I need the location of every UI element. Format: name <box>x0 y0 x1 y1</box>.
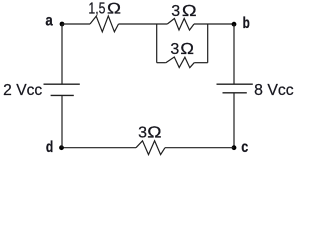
wire battery B2 to node c <box>233 93 235 148</box>
svg-text:Ω: Ω <box>180 41 194 58</box>
resistor R4 <box>136 141 165 155</box>
svg-text:3: 3 <box>170 41 179 58</box>
resistor R1 unit label ohm <box>107 1 122 18</box>
wire parallel-block right vertical <box>207 24 209 63</box>
wire bottom branch lead-in <box>157 62 166 64</box>
wire bottom branch lead-out <box>194 62 208 64</box>
wire c to R4 <box>165 147 234 149</box>
wire b to battery B2 <box>233 24 235 84</box>
battery B2 negative plate <box>223 92 247 94</box>
svg-text:3: 3 <box>138 125 147 142</box>
node d <box>59 145 64 150</box>
node a <box>60 22 65 27</box>
battery B1 negative plate <box>51 94 74 96</box>
wire d to battery B1 <box>61 95 63 147</box>
wire R2 to node b <box>194 23 234 25</box>
resistor R1 <box>90 16 119 32</box>
wire parallel-block left vertical <box>156 24 158 63</box>
svg-text:3: 3 <box>171 3 180 20</box>
battery B2 value label 8 Vcc <box>254 82 294 99</box>
node a label <box>45 13 52 30</box>
battery B1 value label 2 Vcc <box>3 82 42 99</box>
svg-text:Ω: Ω <box>147 125 162 142</box>
node b <box>232 22 237 27</box>
wire battery B1 to a <box>61 24 63 84</box>
svg-text:1,5: 1,5 <box>88 1 105 18</box>
battery B2 positive plate <box>217 83 253 85</box>
svg-text:d: d <box>46 139 53 156</box>
resistor R4 value label 3 (bottom) <box>138 125 147 142</box>
node c label <box>241 139 248 156</box>
wire R1 to parallel junction left <box>119 23 168 25</box>
resistor R4 unit label ohm (bottom) <box>147 125 162 142</box>
svg-text:c: c <box>241 139 248 156</box>
node b label <box>243 15 250 32</box>
svg-text:8 Vcc: 8 Vcc <box>254 82 294 99</box>
resistor R2 (top parallel branch) <box>167 19 194 31</box>
svg-text:Ω: Ω <box>107 1 122 18</box>
svg-text:2 Vcc: 2 Vcc <box>3 82 42 99</box>
resistor R2 unit label ohm (top) <box>182 3 197 20</box>
svg-text:b: b <box>243 15 250 32</box>
resistor R3 (bottom parallel branch) <box>166 57 194 68</box>
resistor R3 value label 3 (middle) <box>170 41 179 58</box>
node d label <box>46 139 53 156</box>
wire a to R1 <box>62 23 90 25</box>
svg-text:Ω: Ω <box>182 3 197 20</box>
wire R4 to node d <box>62 147 136 149</box>
battery B1 positive plate <box>44 83 80 85</box>
resistor R1 value label 1,5 <box>88 1 105 18</box>
resistor R3 unit label ohm (middle) <box>180 41 194 58</box>
resistor R2 value label 3 (top) <box>171 3 180 20</box>
svg-text:a: a <box>45 13 52 30</box>
node c <box>232 145 237 150</box>
